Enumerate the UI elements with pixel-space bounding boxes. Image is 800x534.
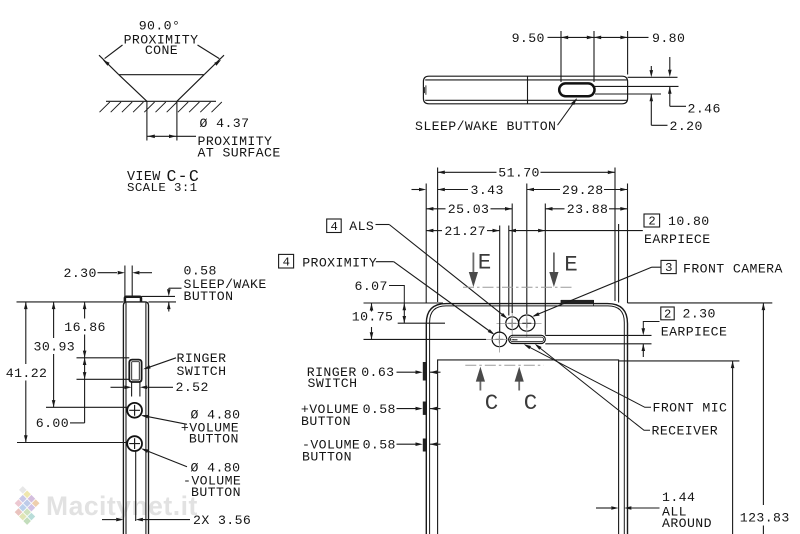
-volume leader (143, 449, 187, 467)
dimension 123.83 (762, 303, 766, 310)
front camera leader (652, 266, 662, 268)
dimension 16.86 (83, 302, 87, 309)
svg-text:Macitynet.it: Macitynet.it (46, 491, 198, 521)
svg-text:0.58: 0.58 (363, 438, 396, 453)
svg-text:16.86: 16.86 (64, 320, 106, 335)
proximity crosshair (484, 338, 514, 340)
svg-text:E: E (478, 250, 492, 276)
svg-text:BUTTON: BUTTON (184, 289, 234, 304)
svg-text:C: C (485, 390, 499, 416)
svg-text:2.30: 2.30 (64, 266, 97, 281)
sleep/wake button top view (559, 83, 594, 96)
label 4 PROXIMITY (279, 254, 294, 268)
svg-text:21.27: 21.27 (444, 224, 486, 239)
section arrow E left (472, 253, 474, 274)
right extension lines top view (628, 76, 678, 78)
ringer switch bump front view (423, 362, 426, 381)
label 4 ALS (327, 219, 342, 233)
section arrow E right (553, 253, 555, 274)
svg-text:23.88: 23.88 (567, 202, 609, 217)
dimension 2X 3.56 (135, 452, 137, 522)
cone angle extension left (99, 55, 119, 74)
svg-text:FRONT CAMERA: FRONT CAMERA (683, 261, 783, 276)
dimension 2.20 (650, 66, 652, 74)
svg-text:10.80: 10.80 (668, 214, 710, 229)
side top extension line (17, 301, 124, 303)
dimension 10.80 earpiece width with leader (509, 229, 516, 233)
sleep/wake button side view (125, 297, 141, 302)
proximity surface extension lines (146, 101, 148, 140)
proximity sensor circle (492, 332, 507, 347)
front view inner outline (430, 306, 625, 534)
sleep/wake leader (558, 99, 577, 125)
svg-text:Ø 4.37: Ø 4.37 (200, 116, 250, 131)
svg-text:SLEEP/WAKE BUTTON: SLEEP/WAKE BUTTON (415, 119, 556, 134)
earpiece 2.30 connector and arrows (643, 322, 659, 330)
watermark logo mosaic (15, 486, 40, 525)
svg-text:PROXIMITY: PROXIMITY (302, 256, 377, 271)
proximity leader (376, 261, 394, 263)
top view left end detail (424, 85, 426, 94)
svg-text:AROUND: AROUND (662, 516, 712, 531)
dimension 2.46 (669, 57, 671, 74)
+volume bump front view (423, 402, 426, 415)
screen top extension right (619, 360, 740, 362)
side view body outline (123, 302, 148, 534)
ALS crosshair (497, 322, 542, 324)
dimension 21.27 (426, 229, 433, 233)
-volume button side view (127, 436, 142, 451)
0.58 connector and arrows (169, 287, 182, 289)
+volume button side view (127, 403, 142, 418)
svg-text:30.93: 30.93 (34, 340, 76, 355)
label 2 2.30 EARPIECE (661, 307, 674, 320)
dimension 25.03 (426, 207, 433, 211)
section line C-C (465, 364, 543, 366)
ringer switch leader (145, 358, 176, 369)
svg-text:41.22: 41.22 (6, 366, 48, 381)
front mic mark (512, 339, 517, 341)
svg-text:4: 4 (330, 220, 337, 234)
svg-text:3.43: 3.43 (471, 183, 504, 198)
section arrow C left (479, 380, 481, 391)
svg-text:SWITCH: SWITCH (308, 376, 358, 391)
dimension 29.28 (527, 188, 534, 192)
dimension 41.22 (24, 302, 28, 309)
svg-text:2.30: 2.30 (683, 307, 716, 322)
receiver extension lines right (545, 334, 651, 336)
svg-text:123.83: 123.83 (740, 511, 790, 526)
svg-text:C: C (524, 390, 538, 416)
svg-text:RECEIVER: RECEIVER (652, 424, 719, 439)
svg-text:SWITCH: SWITCH (177, 364, 227, 379)
screen outline (438, 360, 619, 534)
svg-text:AT SURFACE: AT SURFACE (198, 145, 281, 160)
svg-text:29.28: 29.28 (562, 183, 604, 198)
svg-text:2.52: 2.52 (176, 380, 209, 395)
dimension 3.43 (412, 189, 420, 191)
front mic leader (526, 345, 651, 407)
svg-text:FRONT MIC: FRONT MIC (653, 401, 728, 416)
dimension 23.88 (545, 207, 552, 211)
svg-text:BUTTON: BUTTON (302, 449, 352, 464)
label 2 10.80 EARPIECE (644, 214, 660, 227)
left extension lines (364, 302, 444, 304)
svg-text:2: 2 (648, 215, 655, 229)
+volume leader (143, 416, 188, 425)
svg-text:2.46: 2.46 (688, 101, 721, 116)
svg-text:90.0°: 90.0° (139, 19, 181, 34)
top view phone body outline (423, 76, 627, 104)
svg-text:CONE: CONE (145, 43, 178, 58)
surface line with hatching (106, 100, 216, 102)
svg-text:2X 3.56: 2X 3.56 (193, 513, 251, 528)
svg-text:10.75: 10.75 (352, 310, 394, 325)
screen height dimension line (731, 361, 735, 368)
svg-text:2.20: 2.20 (670, 119, 703, 134)
front view outer outline (426, 304, 627, 534)
dimension 30.93 (52, 302, 56, 309)
top view inner chamfer lines (425, 79, 627, 81)
svg-text:6.00: 6.00 (36, 416, 69, 431)
top view glass divider (527, 76, 529, 104)
sleep/wake notch front view (561, 300, 594, 304)
svg-text:E: E (564, 251, 578, 277)
svg-text:ALS: ALS (349, 219, 374, 234)
svg-text:9.80: 9.80 (652, 31, 685, 46)
-volume bump front view (423, 439, 426, 452)
front camera circle (519, 315, 535, 331)
dimension 4.37 at surface (147, 135, 196, 137)
svg-text:51.70: 51.70 (498, 166, 540, 181)
dimension extension verticals front view (425, 184, 427, 304)
section line E-E (463, 286, 572, 288)
label 3 FRONT CAMERA (661, 260, 676, 273)
dimension 51.70 (438, 171, 497, 173)
side view inner face lines (125, 303, 127, 534)
svg-text:3: 3 (665, 261, 672, 275)
svg-text:BUTTON: BUTTON (191, 485, 241, 500)
svg-text:BUTTON: BUTTON (301, 414, 351, 429)
svg-text:25.03: 25.03 (448, 202, 490, 217)
dimension 10.75 (370, 303, 374, 310)
section arrow C right (518, 380, 520, 391)
cone angle extension right (204, 55, 224, 74)
svg-text:EARPIECE: EARPIECE (661, 325, 728, 340)
svg-text:BUTTON: BUTTON (189, 431, 239, 446)
receiver leader (536, 345, 650, 430)
svg-text:9.50: 9.50 (512, 31, 545, 46)
svg-text:EARPIECE: EARPIECE (644, 232, 711, 247)
ALS sensor circle (506, 317, 519, 330)
svg-text:2: 2 (664, 307, 671, 321)
svg-text:1.44: 1.44 (662, 490, 695, 505)
ALS leader (376, 224, 390, 226)
svg-text:4: 4 (283, 256, 290, 270)
svg-text:0.58: 0.58 (363, 402, 396, 417)
phone top extension right (628, 302, 773, 304)
svg-text:0.63: 0.63 (361, 365, 394, 380)
receiver slot (509, 335, 546, 343)
dimension 6.00 arrows at ringer switch (83, 358, 87, 365)
svg-text:SCALE 3:1: SCALE 3:1 (127, 181, 198, 195)
ringer switch side view (129, 360, 141, 382)
button extension lines (560, 31, 562, 82)
svg-text:6.07: 6.07 (355, 279, 388, 294)
proximity cone outline (119, 75, 204, 102)
dimension 2.52 (131, 383, 133, 397)
